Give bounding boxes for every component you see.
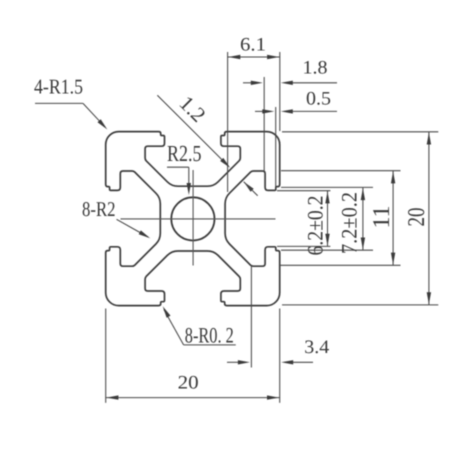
dim 0.5 extension line: [275, 107, 277, 187]
leader 8-R2 line: [117, 219, 149, 237]
svg-text:11: 11: [369, 206, 395, 229]
dim 7.2 extension lines: [281, 186, 373, 188]
horizontal centreline: [121, 218, 276, 220]
dim 6.1 dimension line: [228, 56, 280, 58]
dim 1.8 extension line: [263, 77, 265, 172]
centre bore R2.5: [171, 197, 214, 240]
dim 20 right dimension line: [428, 132, 430, 305]
dim 11 dimension line: [392, 171, 394, 266]
dim 6.2 extension lines: [277, 190, 330, 192]
dim 3.4 dimension line right tail: [291, 361, 313, 363]
dim 20 bottom left extension line: [105, 309, 107, 403]
dim 1.8 dimension line left tail: [243, 82, 253, 84]
svg-text:0.5: 0.5: [306, 89, 331, 110]
dim 6.2 dimension line: [327, 191, 329, 247]
leader 1.2 opposing arrow: [244, 182, 254, 192]
dim 3.4 dimension line left tail: [227, 361, 240, 363]
svg-text:20: 20: [404, 208, 430, 227]
dim 0.5 dimension line right tail: [290, 110, 337, 112]
svg-text:R2.5: R2.5: [167, 141, 202, 166]
svg-text:6.2±0.2: 6.2±0.2: [303, 196, 328, 256]
right face extension line (lower): [279, 309, 281, 403]
dim 20 right extension lines: [282, 131, 438, 133]
svg-text:6.1: 6.1: [240, 35, 266, 56]
leader 1.2 line: [157, 95, 228, 166]
svg-text:3.4: 3.4: [304, 337, 330, 358]
dim 0.5 dimension line left tail: [255, 110, 265, 112]
dim 6.1 extension line right / face extension: [279, 52, 281, 131]
svg-text:8-R2: 8-R2: [82, 197, 116, 221]
leader 4-R1.5 line: [35, 102, 83, 104]
svg-text:8-R0. 2: 8-R0. 2: [185, 322, 234, 347]
extrusion profile outline: [106, 132, 280, 306]
dim 6.1 extension line left: [227, 52, 229, 192]
svg-text:7.2±0.2: 7.2±0.2: [337, 192, 362, 254]
svg-text:4-R1.5: 4-R1.5: [34, 75, 83, 99]
dim 11 extension lines: [281, 170, 401, 172]
dim 7.2 dimension line: [362, 187, 364, 250]
leader 8-R0.2 line: [164, 310, 184, 345]
leader 8-R0.2 underline: [184, 344, 236, 346]
dim 1.8 dimension line right tail: [290, 82, 337, 84]
svg-text:20: 20: [178, 373, 199, 394]
dim 20 bottom dimension line: [106, 397, 280, 399]
leader R2.5 line: [167, 166, 189, 168]
dim 3.4 extension line: [250, 267, 252, 368]
svg-text:1.8: 1.8: [303, 57, 328, 78]
vertical centreline: [192, 170, 194, 266]
svg-text:1.2: 1.2: [175, 91, 211, 127]
